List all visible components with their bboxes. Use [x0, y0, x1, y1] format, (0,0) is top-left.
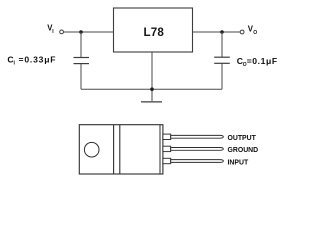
- regulator U1 body: [114, 8, 193, 52]
- ground symbol: [141, 101, 162, 103]
- wire regulator ground lead: [151, 52, 153, 102]
- wire C2 top lead: [221, 32, 223, 57]
- svg-text:=0.1μF: =0.1μF: [247, 56, 278, 66]
- capacitor C1 value label: [7, 55, 56, 67]
- wire C1 bottom lead: [80, 64, 82, 90]
- input terminal: [60, 30, 64, 34]
- node output junction: [220, 30, 224, 34]
- wire input to regulator: [64, 31, 114, 33]
- package tab boundary double line: [114, 125, 120, 174]
- capacitor C1 plates: [74, 58, 90, 64]
- wire ground rail: [81, 88, 222, 90]
- svg-text:=0.33μF: =0.33μF: [19, 55, 57, 65]
- svg-text:I: I: [52, 29, 54, 35]
- pin 3 lead: [163, 158, 223, 163]
- package right edge inner line: [159, 125, 161, 174]
- node input junction: [79, 30, 83, 34]
- svg-text:GROUND: GROUND: [228, 147, 259, 154]
- label Vo: [248, 24, 258, 36]
- pin 2 lead: [163, 146, 223, 151]
- node ground junction: [150, 87, 154, 91]
- label Vi: [47, 24, 54, 36]
- wire C2 bottom lead: [221, 63, 223, 89]
- svg-text:L78: L78: [144, 26, 165, 39]
- capacitor C2 value label: [237, 56, 278, 68]
- svg-text:INPUT: INPUT: [228, 160, 249, 167]
- svg-text:O: O: [253, 30, 257, 36]
- pin 1 lead: [163, 134, 223, 139]
- svg-text:OUTPUT: OUTPUT: [228, 135, 257, 142]
- package body outline: [79, 125, 163, 174]
- wire regulator to output terminal: [193, 31, 241, 33]
- wire C1 top lead: [80, 32, 82, 58]
- capacitor C2 plates: [214, 57, 230, 63]
- mounting hole: [84, 142, 99, 157]
- svg-text:I: I: [14, 61, 16, 67]
- output terminal: [240, 30, 244, 34]
